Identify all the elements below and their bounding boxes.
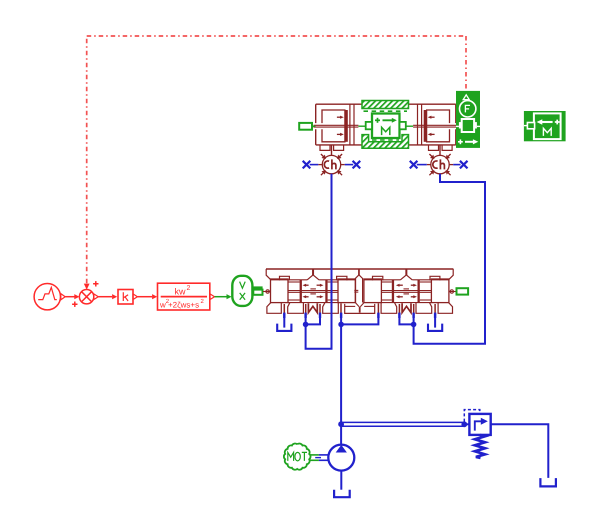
actuator bottom guide (hatched trough) [362, 135, 409, 149]
valve foot 3 [323, 303, 339, 314]
valve chamber A top tab [280, 276, 290, 280]
junction dot B [338, 322, 344, 328]
valve flow arrows [305, 284, 309, 286]
valve foot 3 [381, 303, 397, 314]
relief valve pilot dashed line [464, 410, 480, 422]
wire: valve tank port left [283, 313, 285, 328]
valve flapper W symbol [308, 303, 317, 312]
valve spool connectors [288, 281, 300, 283]
actuator right chamber [427, 110, 450, 142]
servovalve section 2 (mirrored) [364, 269, 457, 313]
actuator right arrows [431, 116, 435, 118]
valve spool land left [300, 280, 302, 303]
wire: junction B to valve port [341, 313, 378, 324]
actuator mass side ports [366, 122, 372, 129]
servovalve center divider [358, 269, 360, 275]
wire: valve port B to junction A [306, 313, 320, 324]
wire: pump to tank [340, 471, 342, 490]
chamber sensor Ch left [318, 154, 344, 175]
actuator left cylinder walls [349, 104, 351, 145]
valve chevron roof [400, 275, 412, 280]
valve connectors to chamber B [381, 281, 391, 283]
supply double line to relief valve [341, 421, 464, 423]
wire: relief valve outlet to tank [491, 424, 549, 478]
actuator rod left [314, 124, 359, 126]
valve chamber box A [271, 279, 289, 303]
valve spool rod [288, 290, 338, 292]
actuator left piston land [345, 110, 348, 142]
tank T3 [334, 490, 350, 497]
servovalve top edge [266, 268, 453, 270]
relief valve spring [475, 435, 485, 458]
junction dot D (pump tee) [338, 421, 344, 427]
svg-text:kw: kw [175, 286, 187, 296]
wire: junction C down around to right Ch [414, 174, 485, 344]
valve flow arrows [411, 284, 415, 286]
valve chamber B top tab [337, 276, 347, 280]
actuator top guide (hatched) [362, 101, 409, 109]
valve shoulder line [271, 279, 308, 281]
servovalve center wide foot [345, 304, 375, 314]
summing junction [79, 290, 93, 304]
wire: gain to transfer function [133, 294, 137, 300]
valve chamber box A [431, 279, 449, 303]
wire: left Ch down and to valve port A [306, 174, 332, 349]
wires: Ch side stubs to plugs [310, 164, 319, 166]
valve chamber A top tab [430, 276, 440, 280]
junction dot C [411, 322, 417, 328]
tank T2 [428, 324, 442, 331]
plus sign top [93, 281, 98, 286]
actuator rod right [413, 124, 458, 126]
wire: valve port to junction C [399, 313, 413, 324]
valve chamber B top tab [373, 276, 383, 280]
valve pilot port stub and ring [449, 291, 457, 293]
valve bottom port stubs [434, 304, 436, 313]
svg-text:2: 2 [187, 285, 191, 292]
servovalve section 1 [263, 269, 356, 313]
valve left end slant [449, 269, 453, 280]
actuator left arrows [337, 116, 341, 118]
actuator left chamber [322, 110, 345, 142]
valve spool land right [392, 280, 394, 303]
actuator bottom feet [320, 145, 330, 151]
feedback dash-dot wire horizontal top [87, 35, 466, 37]
gain block k [118, 290, 133, 305]
valve chevron roof [307, 275, 319, 280]
prime mover MOT [284, 443, 311, 469]
wire: valve tank port right [434, 313, 436, 328]
chamber sensor Ch right [427, 154, 453, 175]
actuator top contact dashes [364, 110, 408, 112]
VX output green port to valve [252, 286, 262, 289]
valve flapper W symbol [402, 303, 411, 312]
valve foot 2 [288, 303, 304, 314]
actuator port stub to right chamber sensor [439, 145, 441, 155]
wire: transfer function to VX converter [210, 294, 215, 300]
valve shoulder line [412, 279, 449, 281]
valve left end slant [266, 269, 270, 280]
valve foot 2 [416, 303, 432, 314]
wire: valve pressure port down to pump [340, 313, 342, 445]
actuator port stub to left chamber sensor [331, 145, 333, 155]
valve spool connectors [420, 281, 432, 283]
valve bottom port stubs [283, 304, 285, 313]
plugged port X marks [303, 161, 311, 169]
valve spool rod [381, 290, 431, 292]
valve top port stub [405, 269, 407, 275]
actuator inlet green port left [299, 123, 312, 130]
feedback arrowhead into summer [84, 284, 90, 290]
converter block V/X [232, 276, 252, 306]
valve top port stub [312, 269, 314, 275]
valve foot 1 [267, 303, 281, 314]
valve spool land left [418, 280, 420, 303]
servovalve right green port [457, 288, 469, 294]
valve chamber box B [338, 279, 356, 303]
shaft MOT to pump [310, 454, 319, 456]
plus sign bottom [72, 302, 77, 307]
force sensor block F [456, 91, 480, 148]
valve spool land right [325, 280, 327, 303]
valve bottom line under spool [381, 302, 431, 304]
feedback dash-dot wire vertical left [86, 36, 88, 283]
signal source (ramp/waveform generator) [34, 284, 65, 310]
wire: source to summer [65, 296, 75, 298]
actuator right outer edge [455, 104, 457, 145]
relief valve box [464, 423, 469, 425]
valve foot 1 [438, 303, 452, 314]
junction dot A [303, 322, 309, 328]
tank T1 [277, 324, 291, 331]
actuator mass block M [372, 114, 400, 139]
tank T4 [540, 478, 556, 486]
transfer function block kw^2/(w^2+2zws+s^2) [158, 283, 210, 310]
valve connectors to chamber B [328, 281, 338, 283]
pump [328, 445, 354, 471]
junction dot E (relief tee) [461, 421, 467, 427]
actuator right piston land [424, 110, 427, 142]
feedback dash-dot wire drop to force sensor [465, 36, 467, 89]
wire: summer to gain k [94, 294, 99, 300]
mass block M (standalone) [524, 111, 566, 141]
valve port blue ticks [283, 313, 285, 318]
valve pilot port stub and ring [263, 291, 271, 293]
actuator body outline [316, 103, 456, 105]
actuator right cylinder walls [421, 104, 423, 145]
valve chamber box B [364, 279, 382, 303]
valve bottom line under spool [288, 302, 338, 304]
actuator bottom contact dashes [372, 139, 399, 141]
